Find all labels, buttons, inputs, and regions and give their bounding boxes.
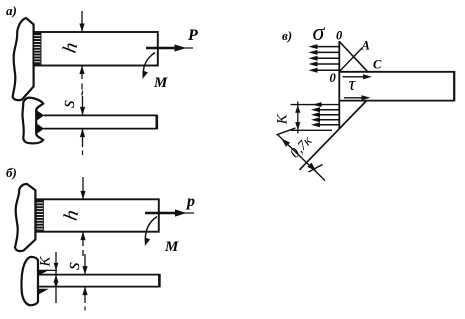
svg-text:0: 0 [330, 71, 337, 85]
plate of б plan view [38, 274, 159, 288]
tau shear arrow lower [344, 95, 371, 100]
sigma stress arrows upper block [309, 44, 340, 73]
svg-text:M: M [153, 75, 168, 91]
dimension K of б plan [38, 252, 59, 303]
label б) [6, 165, 17, 180]
node C label [373, 58, 382, 72]
lower fillet weld (black) of б plan [37, 289, 49, 295]
svg-text:б): б) [6, 165, 17, 180]
wall face line of в [338, 41, 340, 129]
svg-text:τ: τ [349, 74, 357, 95]
svg-text:M: M [164, 239, 179, 255]
moment M arrow of а [143, 53, 169, 92]
svg-text:p: p [185, 193, 195, 210]
svg-text:A: A [361, 39, 370, 53]
wall (support) of sub-figure б [15, 184, 35, 251]
dimension K of в [275, 102, 301, 134]
beam (plate) of в [339, 71, 454, 101]
wall (support) of б plan view [21, 257, 38, 306]
sigma stress label of в [313, 20, 326, 46]
sigma stress arrows lower block [311, 107, 339, 127]
dimension h of б [60, 177, 86, 256]
butt weld strip (hatched) of а [34, 33, 41, 66]
wall (support) of sub-figure а [13, 18, 34, 100]
svg-text:а): а) [6, 3, 17, 18]
beam (bar) of sub-figure а [34, 32, 158, 66]
force P arrow of а [146, 27, 198, 52]
throat line O-A [339, 48, 362, 72]
weld bead (lower black triangle) of а plan [36, 123, 45, 135]
wall (support) of а plan view [22, 98, 43, 144]
svg-text:C: C [373, 58, 382, 72]
svg-text:σ: σ [313, 20, 326, 46]
K top extension line with arrow of в [291, 102, 341, 107]
label в) [282, 28, 292, 43]
moment M arrow of б [145, 217, 179, 256]
tau shear arrow upper [343, 74, 373, 95]
svg-text:P: P [187, 27, 198, 44]
K bottom extension line of в [291, 129, 333, 131]
svg-text:0: 0 [336, 29, 343, 43]
dimension 0,7K of в [277, 128, 326, 181]
fillet weld strip (hatched) of б [37, 200, 44, 232]
dimension h of а [59, 11, 85, 96]
svg-text:K: K [38, 256, 54, 268]
dimension s of а plan [57, 91, 85, 156]
node O bottom label [330, 71, 337, 85]
svg-text:K: K [275, 113, 291, 125]
dimension s of б plan [62, 254, 88, 311]
label а) [6, 3, 17, 18]
upper fillet weld (black) of б plan [37, 270, 57, 276]
svg-text:в): в) [282, 28, 292, 43]
upper weld triangle hypotenuse O-C [339, 42, 367, 72]
beam (bar) of sub-figure б [36, 199, 159, 231]
lower weld hypotenuse extended [300, 101, 367, 170]
node O top label [336, 29, 343, 43]
node A label [361, 39, 370, 53]
plate of а plan view [44, 115, 157, 130]
weld bead (upper black triangle) of а plan [36, 110, 45, 122]
force P arrow of б [145, 193, 195, 217]
